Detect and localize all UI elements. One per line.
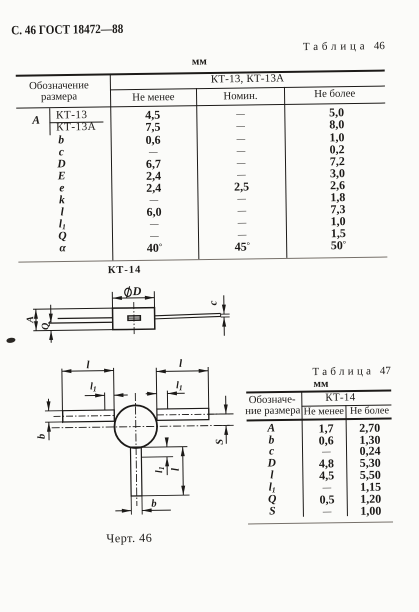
t47 hdr col1 line2	[245, 405, 300, 417]
table46 col line 3	[284, 87, 287, 258]
label Q (rotated)	[41, 323, 51, 330]
row label a	[59, 243, 66, 255]
dash r10 c2	[238, 230, 247, 239]
label b (bottom)	[151, 499, 156, 510]
horizontal axis (dash-dot)	[52, 425, 230, 427]
val r1 c1	[145, 121, 160, 133]
label l1 (right)	[176, 381, 183, 392]
table46 header mid line	[110, 85, 385, 90]
val r7 c3	[330, 191, 345, 203]
val r11 c3	[331, 239, 347, 251]
dash r4 c2	[237, 158, 246, 167]
witness lines bottom lead	[141, 446, 187, 449]
t47 row label c	[269, 447, 274, 459]
table46 top border	[16, 70, 385, 77]
label l1 (left)	[90, 383, 97, 394]
caption Черт. 46	[106, 532, 152, 545]
right lead bottom edge	[155, 316, 221, 318]
hdr col1 line2	[41, 91, 77, 102]
dim l1 (bottom lead)	[166, 439, 168, 447]
row sub КТ-13А	[56, 121, 96, 133]
hdr КТ-13, КТ-13А	[211, 74, 285, 86]
label A (rotated)	[26, 316, 36, 323]
t47 val r7 c2	[360, 505, 381, 517]
row label l	[61, 207, 64, 219]
dash r9 c2	[238, 218, 247, 227]
dim l (right lead)	[155, 368, 158, 409]
side view drawing	[25, 280, 241, 349]
dim Q arrows	[50, 305, 52, 323]
table47 header bottom line	[246, 418, 391, 421]
bottom view drawing	[31, 355, 238, 523]
left lead (side view)	[58, 317, 113, 320]
dash r10 c1	[150, 231, 159, 240]
row A split: line between KT-13 / KT-13A	[49, 122, 103, 124]
t47 row label l1	[269, 482, 276, 494]
table47 col line 1	[301, 392, 304, 517]
row label e	[59, 183, 64, 195]
label b (left, rotated)	[37, 433, 48, 438]
val r11 c1	[147, 241, 163, 253]
t47 hdr КТ-14	[325, 392, 355, 403]
right lead axis	[157, 414, 230, 415]
label c (rotated)	[209, 300, 220, 305]
t47 val r2 c2	[359, 445, 380, 457]
val r6 c2	[234, 180, 249, 192]
row label E	[58, 171, 66, 183]
body outline (side view)	[113, 308, 155, 330]
dash r7 c1	[150, 195, 159, 204]
t47 hdr Не более	[350, 406, 389, 417]
center axis (dash-dot)	[133, 302, 135, 335]
hdr Не менее	[132, 92, 174, 103]
label phiD (phi symbol)	[125, 288, 132, 296]
t47 row label А	[267, 423, 275, 435]
val r4 c3	[330, 155, 345, 167]
table47 col line 2	[345, 405, 348, 516]
table46 bottom border	[18, 256, 387, 262]
crystal holder inner rect	[128, 316, 140, 321]
package body circle	[114, 405, 157, 448]
val r10 c3	[331, 227, 346, 239]
val r5 c3	[330, 167, 345, 179]
t47 hdr col1 line1	[249, 395, 296, 406]
right lead top edge	[155, 313, 221, 315]
row label l1	[59, 219, 66, 231]
label l1 (bottom, rotated)	[155, 466, 166, 473]
table47 bottom border	[248, 522, 393, 525]
t47 val r3 c1	[319, 458, 334, 470]
dim l1 (left lead)	[104, 392, 106, 410]
val r6 c1	[146, 181, 161, 193]
crystal holder mid line	[128, 317, 140, 319]
dim phiD line and arrows	[112, 297, 154, 300]
t47 val r4 c1	[319, 469, 334, 481]
dash r3 c1	[149, 147, 158, 156]
left lead rect	[63, 410, 115, 422]
units mm (table 46)	[192, 57, 207, 68]
val r3 c3	[330, 143, 345, 155]
val r0 c1	[145, 109, 160, 121]
vertical axis (dash-dot)	[135, 393, 137, 506]
t47 val r6 c2	[360, 493, 381, 505]
t47 row label S	[269, 506, 276, 518]
dash r2 c2	[236, 134, 245, 143]
row label Q	[58, 231, 66, 243]
label l (left)	[86, 360, 89, 371]
bottom lead rect	[130, 447, 141, 496]
val r9 c3	[331, 215, 346, 227]
val r0 c3	[329, 106, 344, 118]
caption Таблица 47	[312, 365, 391, 377]
t47 dash r7	[323, 507, 332, 516]
val r8 c3	[330, 203, 345, 215]
val r11 c2	[235, 240, 251, 252]
hdr col1 line1	[29, 80, 89, 92]
t47 dash r5	[322, 483, 331, 492]
t47 val r1 c2	[359, 433, 380, 445]
table46 col line 1	[110, 74, 114, 260]
table47 KT-14 underline	[302, 404, 392, 406]
val r5 c1	[146, 169, 161, 181]
label S (rotated)	[215, 439, 226, 445]
val r1 c3	[329, 118, 344, 130]
t47 dash r2	[322, 447, 331, 456]
t47 val r4 c2	[360, 469, 381, 481]
row sub КТ-13	[56, 110, 88, 122]
row label k	[59, 195, 65, 207]
dim c arrows	[223, 295, 225, 314]
right lead rect	[157, 408, 209, 420]
dim A arrows	[35, 309, 37, 330]
units mm (table 47)	[313, 378, 328, 389]
t47 row label Q	[268, 494, 276, 506]
val r2 c3	[329, 131, 344, 143]
label l (bottom, rotated)	[170, 468, 181, 471]
t47 val r1 c1	[319, 434, 334, 446]
dim c witness lines	[221, 313, 230, 315]
caption Таблица 46	[303, 41, 385, 53]
page header	[11, 22, 139, 37]
left lead axis	[54, 415, 115, 418]
t47 val r5 c2	[360, 481, 381, 493]
drawing title КТ-14	[108, 266, 142, 277]
table46 col line 2	[196, 89, 199, 260]
row label c	[59, 147, 64, 159]
dash r9 c1	[150, 219, 159, 228]
dash r3 c2	[237, 146, 246, 155]
dash r8 c2	[237, 206, 246, 215]
t47 val r0 c1	[318, 422, 333, 434]
val r2 c1	[145, 133, 160, 145]
row label b	[58, 135, 64, 147]
dim l (bottom lead)	[182, 447, 185, 495]
dim b (bottom lead)	[130, 496, 132, 514]
hdr Не более	[314, 89, 355, 100]
val r6 c3	[330, 179, 345, 191]
scan artifact (left margin blob)	[6, 336, 16, 343]
row A split: vertical tick	[49, 108, 50, 136]
ext line bottom (A)	[33, 330, 112, 331]
dim l (left lead)	[61, 369, 64, 423]
hdr Номин.	[223, 91, 257, 102]
right lead tip	[220, 314, 222, 317]
row label D	[57, 159, 65, 171]
ext line top (A)	[33, 308, 112, 309]
dash r5 c2	[237, 170, 246, 179]
dim phiD witness lines	[111, 292, 113, 308]
dim l1 (right lead)	[166, 391, 168, 409]
t47 row label D	[268, 459, 276, 471]
dim S (right side)	[225, 396, 227, 414]
t47 val r0 c2	[359, 421, 380, 433]
dim S witness stubs	[209, 413, 233, 415]
t47 hdr Не менее	[304, 407, 344, 418]
table46 header bottom line	[16, 102, 385, 108]
t47 val r3 c2	[360, 457, 381, 469]
table47 top border	[246, 390, 391, 394]
dash r7 c2	[237, 194, 246, 203]
dim b (left lead)	[45, 410, 63, 412]
dash r1 c2	[236, 122, 245, 131]
t47 row label l	[270, 471, 273, 483]
row label А	[32, 115, 40, 127]
val r4 c1	[146, 157, 161, 169]
t47 val r6 c1	[319, 493, 334, 505]
label l (right)	[179, 358, 182, 369]
t47 row label b	[269, 435, 275, 447]
dash r0 c2	[236, 110, 245, 119]
label phiD (D part)	[133, 285, 142, 297]
val r8 c1	[146, 205, 161, 217]
